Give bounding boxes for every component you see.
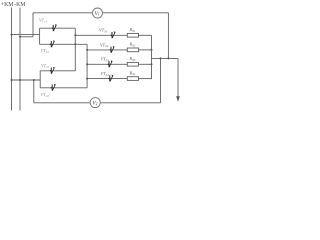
svg-text:R01: R01 xyxy=(129,27,136,33)
svg-text:VT31: VT31 xyxy=(99,28,108,34)
svg-text:VT34: VT34 xyxy=(101,71,110,77)
svg-text:VT32: VT32 xyxy=(100,42,109,48)
svg-text:VT21: VT21 xyxy=(41,63,50,69)
svg-text:R02: R02 xyxy=(129,42,136,48)
svg-text:R04: R04 xyxy=(129,70,136,76)
svg-text:R03: R03 xyxy=(129,56,136,62)
svg-text:VT11: VT11 xyxy=(39,18,47,24)
svg-text:VT33: VT33 xyxy=(101,57,110,63)
svg-text:-KM: -KM xyxy=(14,2,25,8)
svg-text:+KM: +KM xyxy=(1,2,14,8)
svg-text:VT12: VT12 xyxy=(41,48,50,54)
svg-text:VT22: VT22 xyxy=(41,92,50,98)
svg-text:V2: V2 xyxy=(92,101,97,107)
svg-text:V1: V1 xyxy=(95,11,100,17)
